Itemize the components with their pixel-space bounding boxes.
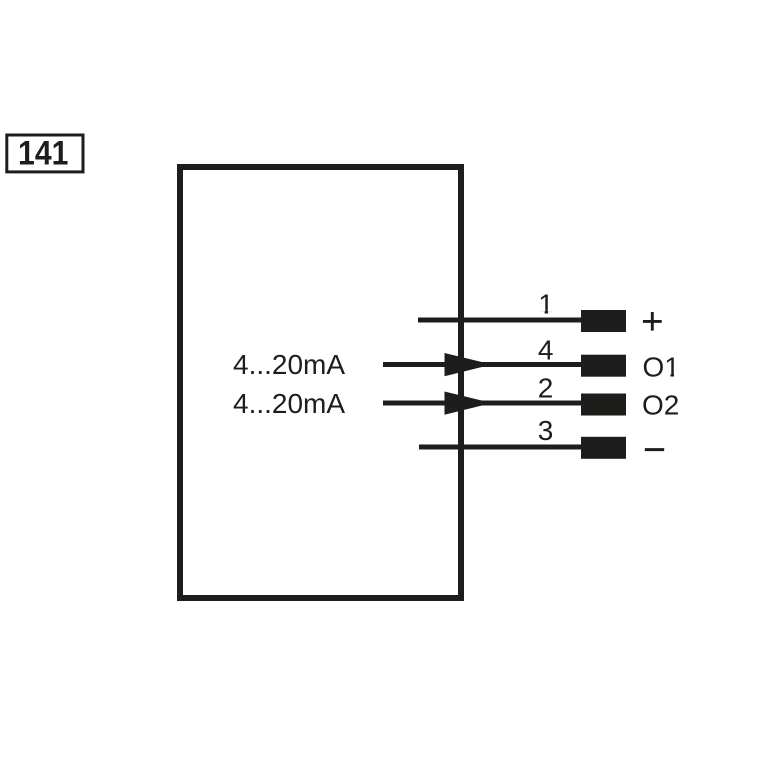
terminal label - [645, 448, 664, 451]
svg-text:O1: O1 [643, 352, 680, 383]
terminal block pin 1 [581, 310, 626, 332]
svg-text:O2: O2 [642, 390, 679, 421]
wire pin 2 (O2) [383, 401, 583, 406]
terminal label + [643, 312, 662, 331]
wire pin 3 (-) [419, 445, 583, 450]
wire pin 1 (+) [418, 318, 583, 323]
terminal block pin 4 [581, 355, 626, 377]
device outline box U1 [180, 167, 461, 598]
svg-text:141: 141 [18, 134, 68, 172]
arrowhead on O1 wire [445, 353, 493, 376]
svg-text:4: 4 [538, 335, 554, 366]
wire pin 4 (O1) [383, 362, 583, 367]
svg-text:4...20mA: 4...20mA [233, 388, 345, 419]
arrowhead on O2 wire [445, 392, 493, 415]
svg-text:2: 2 [538, 372, 554, 403]
svg-text:3: 3 [538, 415, 554, 446]
terminal block pin 2 [581, 394, 626, 416]
figure label text 141 [18, 134, 68, 172]
white patches to remove foot serif of digit 1 glyphs [538, 311, 679, 377]
svg-text:4...20mA: 4...20mA [233, 349, 345, 380]
figure label box 141 [7, 135, 83, 172]
svg-text:1: 1 [538, 289, 554, 320]
terminal block pin 3 [581, 437, 626, 459]
